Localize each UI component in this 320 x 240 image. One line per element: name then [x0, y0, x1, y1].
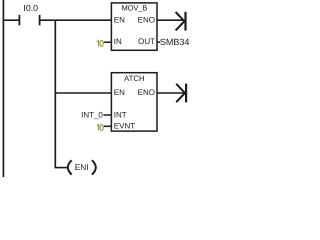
wire stub OUT to SMB34: [157, 41, 160, 43]
svg-text:EN: EN: [114, 16, 125, 25]
svg-text:OUT: OUT: [138, 37, 155, 46]
left power rail: [2, 0, 4, 177]
continuation arrow rung1: [176, 12, 186, 31]
svg-text:SMB34: SMB34: [160, 37, 190, 47]
wire branch to coil: [55, 167, 68, 169]
svg-text:ENO: ENO: [138, 88, 155, 97]
value 10 at IN: [97, 40, 103, 46]
svg-text:INT: INT: [114, 110, 127, 119]
svg-text:ATCH: ATCH: [124, 74, 145, 83]
wire branch to ATCH EN: [55, 92, 112, 94]
box ATCH U2: [111, 73, 157, 131]
contact I0.0 right bar: [39, 15, 41, 25]
wire stub value to IN: [104, 41, 112, 43]
contact I0.0 left bar: [18, 15, 20, 25]
svg-text:EN: EN: [114, 88, 125, 97]
coil ENI left paren: [68, 160, 72, 174]
wire ENO to arrow rung2: [157, 92, 185, 94]
svg-text:EVNT: EVNT: [114, 122, 135, 131]
wire stub value to EVNT: [104, 125, 112, 127]
wire stub INT_0 to INT: [103, 114, 111, 116]
svg-text:IN: IN: [114, 37, 122, 46]
svg-text:MOV_B: MOV_B: [122, 4, 148, 13]
wire rail to contact: [3, 19, 19, 21]
value 10 at EVNT: [97, 125, 103, 131]
svg-text:INT_0: INT_0: [81, 111, 103, 120]
svg-text:ENI: ENI: [75, 162, 89, 172]
coil ENI right paren: [92, 160, 96, 174]
box MOV_B U1: [111, 3, 157, 50]
wire contact to MOV_B EN: [40, 19, 112, 21]
svg-text:I0.0: I0.0: [23, 3, 38, 13]
wire ENO to arrow: [157, 19, 184, 21]
svg-text:ENO: ENO: [138, 16, 155, 25]
continuation arrow rung2: [176, 84, 186, 103]
branch vertical wire: [54, 20, 56, 168]
